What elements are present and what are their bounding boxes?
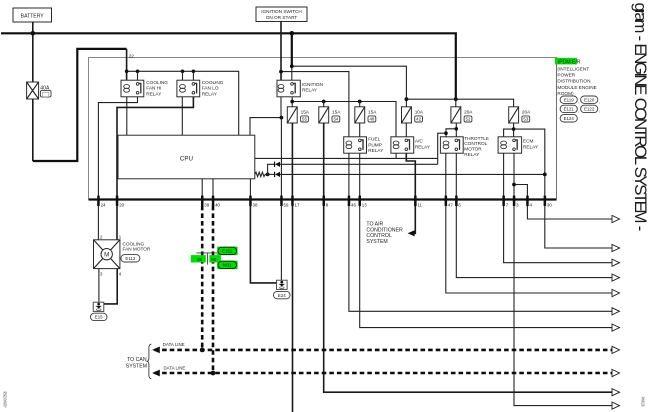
label drawing code right <box>641 397 646 407</box>
wire HI coil to CPU <box>126 97 128 135</box>
ground E24 <box>277 280 288 289</box>
wire diode branch riser <box>268 164 275 174</box>
label motor pin 3 <box>100 271 103 276</box>
arrow CAN L to can system <box>152 370 160 377</box>
pin stub 7 <box>502 196 505 206</box>
svg-text:47: 47 <box>448 202 453 207</box>
svg-text:E15: E15 <box>95 315 103 320</box>
pin stub 4 <box>526 196 529 206</box>
node pin30 diode junction <box>543 173 547 177</box>
wire pin 3 to arrow row 11 <box>514 206 612 406</box>
svg-text:FAN LO: FAN LO <box>202 86 219 91</box>
label data line lower <box>164 365 186 370</box>
wire HI contact top pin <box>137 71 139 80</box>
svg-text:,: , <box>578 99 579 104</box>
node fuse rail 54 <box>322 100 326 104</box>
relay A/C <box>391 137 414 153</box>
pin label 8 <box>326 202 329 207</box>
svg-text:22: 22 <box>129 53 135 58</box>
svg-text:CONTROL: CONTROL <box>464 141 487 146</box>
wire ground net to CPU <box>250 118 281 136</box>
label ignition relay <box>302 82 323 93</box>
svg-text:20: 20 <box>119 202 124 207</box>
svg-text:13: 13 <box>362 202 367 207</box>
wire cooling fan relay rail <box>127 71 239 135</box>
wire fuse 54 top pin <box>323 102 325 107</box>
wire fuse 48 top pin <box>359 102 361 107</box>
arrow next page row 10 <box>612 389 620 396</box>
cooling fan motor M1 <box>94 240 120 269</box>
svg-text:DATA LINE: DATA LINE <box>163 342 185 347</box>
connector label M31 <box>217 261 237 270</box>
wire pin 7 to arrow row 3 <box>504 206 612 263</box>
node battery fuse rail 52 <box>454 97 458 101</box>
svg-text:ROOM): ROOM) <box>557 91 574 96</box>
label cooling fan LO relay <box>202 80 224 96</box>
wire CPU pin 40 drop <box>212 179 214 200</box>
pin stub 38 <box>249 196 252 206</box>
pin stub 40 <box>212 196 215 206</box>
IPDM E/R enclosure box <box>89 58 557 200</box>
svg-text:E120: E120 <box>584 98 595 103</box>
wire pin 47 to arrow row 5 <box>446 206 612 293</box>
wire pin 20 to motor pin 1 <box>116 206 118 240</box>
wire ignition switched fuse rail <box>292 102 396 137</box>
svg-text:A/C: A/C <box>415 139 423 144</box>
svg-text:39: 39 <box>204 202 209 207</box>
wire ignition coil to ground net <box>280 97 282 118</box>
pin stub 59 <box>280 196 283 206</box>
svg-text:FAN HI: FAN HI <box>146 86 161 91</box>
arrow next page row 1 <box>612 215 620 222</box>
svg-text:PUMP: PUMP <box>368 142 382 147</box>
label motor pin 1 <box>119 235 122 240</box>
svg-text:COOLING: COOLING <box>202 80 224 85</box>
arrow next page CAN H <box>612 346 620 353</box>
label fuse 22 <box>129 53 135 58</box>
pin label 30 <box>547 202 552 207</box>
svg-text:46: 46 <box>351 202 356 207</box>
arrow next page CAN L <box>612 369 620 376</box>
wire AC contact to pin 11 <box>406 153 415 199</box>
wire pin 13 to arrow row 7 <box>360 206 612 328</box>
svg-text:RELAY: RELAY <box>146 91 162 96</box>
svg-text:E119: E119 <box>564 98 574 103</box>
wire fuse 53 to ECM relay <box>504 123 545 200</box>
ignition switch box <box>256 7 307 22</box>
svg-text:SYSTEM: SYSTEM <box>366 239 387 245</box>
label to CAN system <box>126 357 147 369</box>
connector label E121 <box>560 105 579 113</box>
arrow to air conditioner <box>408 230 415 236</box>
svg-text:M: M <box>104 251 109 258</box>
fuse 15A 48 <box>355 107 377 123</box>
svg-text:ECM: ECM <box>523 139 534 144</box>
relay throttle control motor <box>440 137 463 153</box>
svg-text:IGNITION SWITCH: IGNITION SWITCH <box>261 9 302 14</box>
svg-text:THROTTLE: THROTTLE <box>464 136 489 141</box>
label motor pin 4 <box>119 271 122 276</box>
wire CPU pin 38 drop <box>249 179 251 200</box>
wire pin 17 ignition power feed down <box>292 206 294 412</box>
wire CPU pin 39 drop <box>201 179 203 200</box>
wire motor pin 4 to ground <box>104 269 117 304</box>
node ignition coil ground tap <box>280 116 284 120</box>
node ECM contact branch <box>512 183 516 187</box>
label ECM relay <box>523 139 539 150</box>
wire battery drop to relay rail <box>291 33 293 80</box>
svg-text:SYSTEM: SYSTEM <box>126 363 147 369</box>
wire pin 4 to arrow row 1 <box>527 206 612 219</box>
svg-text:CPU: CPU <box>180 156 193 163</box>
label data line upper <box>163 342 185 347</box>
wire LO contact top pin <box>192 71 194 80</box>
connector label E122 <box>581 105 600 113</box>
pin label 46 <box>351 202 356 207</box>
connector E152/M31 pass-through <box>196 253 217 265</box>
wire fuse 55 to pin 17 <box>291 123 293 200</box>
connector label E24 <box>274 291 291 298</box>
pin stub 20 <box>116 196 119 206</box>
svg-text:24: 24 <box>101 202 106 207</box>
svg-text:E113: E113 <box>125 256 135 261</box>
wire diode D2 output to pin30 net <box>280 173 545 175</box>
svg-text:IGNITION: IGNITION <box>302 82 323 87</box>
wire pin 30 to arrow row 2 <box>545 206 612 248</box>
wire throttle contact to pin 6 <box>455 153 457 199</box>
wire HI contact to pin 24 <box>98 97 137 200</box>
label connector pin 66 <box>191 255 206 262</box>
svg-text:COOLING: COOLING <box>146 80 168 85</box>
label connector pin 90 <box>209 255 220 262</box>
pin stub 6 <box>455 196 458 206</box>
pin label 39 <box>204 202 209 207</box>
svg-text:55: 55 <box>302 117 307 122</box>
svg-text:TO CAN: TO CAN <box>127 357 147 363</box>
label to air conditioner control system <box>366 222 403 245</box>
svg-text:IPDM E/R: IPDM E/R <box>558 59 581 65</box>
fuse 20A 52 <box>451 107 473 123</box>
wire battery rail y66 <box>292 66 407 99</box>
pin label 24 <box>101 202 106 207</box>
svg-text:66: 66 <box>197 257 202 262</box>
wire pin 46 to arrow row 6 <box>349 206 612 311</box>
node battery tap <box>31 31 36 36</box>
svg-text:E124: E124 <box>564 116 575 121</box>
wire ignition rail to fuel pump coil <box>281 72 349 137</box>
pin label 17 <box>295 202 300 207</box>
diode D1 <box>275 162 280 167</box>
svg-text:20A: 20A <box>464 110 473 115</box>
pin stub 47 <box>445 196 448 206</box>
wire ECM coil to pin 7 <box>503 153 505 199</box>
wire fuse 42 top pin <box>405 99 407 107</box>
wire fusible link to IPDM fuse 22 riser <box>33 49 127 161</box>
label IPDM full name <box>557 67 596 96</box>
pin stub 39 <box>201 196 204 206</box>
node CAN L junction <box>211 371 216 376</box>
wire fuse 48 to fuel pump contact <box>359 123 361 137</box>
fusible link 40A <box>27 82 51 99</box>
pin label 40 <box>215 202 220 207</box>
pin stub 30 <box>544 196 547 206</box>
pin stub 11 <box>414 196 417 206</box>
node fuse 52 branch <box>455 127 459 131</box>
svg-text:42: 42 <box>416 117 421 122</box>
node fuse rail 48 <box>358 100 362 104</box>
pin label 7 <box>506 202 509 207</box>
node ignition rail tap <box>279 70 283 74</box>
node rail HI coil <box>125 70 129 74</box>
wire ignition contact to fuse rail <box>291 97 293 107</box>
arrow next page row 2 <box>612 244 620 251</box>
arrow next page row 6 <box>612 308 620 315</box>
arrow next page row 3 <box>612 259 620 266</box>
label fuel pump relay <box>368 137 384 153</box>
label page title vertical <box>631 3 650 231</box>
svg-text:10A: 10A <box>415 110 424 115</box>
svg-text:FUEL: FUEL <box>368 137 380 142</box>
label cooling fan HI relay <box>146 80 168 96</box>
svg-text:,: , <box>599 99 600 104</box>
svg-text:53: 53 <box>523 117 528 122</box>
wire AC coil ground to CPU net <box>395 153 397 158</box>
node throttle coil feed <box>444 131 448 135</box>
wire motor pin 3 to ground <box>98 269 100 303</box>
IPDM bottom pin row line <box>89 198 557 200</box>
pin stub 8 <box>323 196 326 206</box>
wire LO coil to CPU <box>181 97 183 135</box>
svg-text:E24: E24 <box>278 293 286 298</box>
svg-text:JPMIA0012GB: JPMIA0012GB <box>641 397 646 407</box>
wire LO contact to pin 20 <box>117 97 193 200</box>
relay ECM <box>498 137 521 153</box>
arrow next page row 11 <box>612 402 620 409</box>
wire fuse 52 top pin <box>455 99 457 107</box>
svg-text:30: 30 <box>547 202 552 207</box>
wire CAN pin 39 dashed <box>201 206 204 350</box>
label throttle control motor relay <box>464 136 489 157</box>
svg-text:RELAY: RELAY <box>202 91 218 96</box>
node battery fuse rail 42 <box>405 97 409 101</box>
svg-text:DISTRIBUTION: DISTRIBUTION <box>557 79 590 84</box>
label cooling fan motor <box>123 242 151 252</box>
svg-text:RELAY: RELAY <box>464 152 480 157</box>
relay cooling fan LO <box>177 80 200 97</box>
svg-text:11: 11 <box>417 202 422 207</box>
wire pin 8 to arrow row 10 <box>324 206 612 392</box>
diode D2 <box>268 172 280 177</box>
svg-text:,: , <box>599 108 600 113</box>
fuse 15A 55 <box>287 107 310 123</box>
pin stub 24 <box>97 196 100 206</box>
wire battery main feed <box>1 33 456 99</box>
svg-text:17: 17 <box>295 202 300 207</box>
connector E113 <box>121 255 140 262</box>
wire throttle coil to pin 47 <box>445 153 447 199</box>
svg-text:RELAY: RELAY <box>302 88 318 93</box>
node rail LO contact <box>192 70 196 74</box>
pin label 4 <box>530 202 533 207</box>
wire LO coil top pin <box>182 71 184 80</box>
pin stub 17 <box>291 196 294 206</box>
pin label 3 <box>516 202 519 207</box>
CPU box <box>118 135 255 179</box>
svg-text:90: 90 <box>211 257 216 262</box>
relay cooling fan HI <box>121 80 144 97</box>
wire ignition switch drop <box>280 22 282 81</box>
pin label 59 <box>284 202 289 207</box>
arrow next page row 4 <box>612 274 620 281</box>
pin label 6 <box>458 202 461 207</box>
node fuse rail start <box>290 100 294 104</box>
svg-text:RELAY: RELAY <box>368 148 384 153</box>
svg-text:MOTOR: MOTOR <box>464 147 482 152</box>
svg-text:ON OR START: ON OR START <box>266 15 298 20</box>
wire CAN H data line <box>155 349 613 352</box>
wire fuel pump contact to pin 13 <box>359 153 361 199</box>
node CAN H junction <box>200 348 205 353</box>
svg-text:54: 54 <box>333 117 338 122</box>
wire pin 24 to motor pin 2 <box>97 206 99 240</box>
arrow next page row 5 <box>612 289 620 296</box>
wire pin 38 to ground E24 <box>250 206 276 283</box>
svg-text:15A: 15A <box>368 110 377 115</box>
connector label E15 <box>90 313 107 320</box>
label IPDM highlighted <box>555 58 581 66</box>
pin label 11 <box>417 202 422 207</box>
node battery rail tap <box>290 64 294 68</box>
wire diode D1 output <box>280 163 438 165</box>
pin stub 46 <box>348 196 351 206</box>
fuse 15A 54 <box>319 107 341 123</box>
relay ignition <box>277 80 300 97</box>
wire CAN pin 40 dashed <box>212 206 215 373</box>
node ignition switch feed tap <box>290 31 295 36</box>
pin stub 13 <box>359 196 362 206</box>
wire fuse 22 drop into IPDM <box>126 49 128 81</box>
wire ECM contact output <box>514 153 527 199</box>
battery B1 <box>13 8 52 22</box>
pin label 13 <box>362 202 367 207</box>
wire pin 11 to air conditioner system <box>410 206 415 234</box>
svg-text:POWER: POWER <box>557 73 575 78</box>
wire pin 6 to arrow row 4 <box>456 206 612 278</box>
svg-text:E122: E122 <box>584 107 595 112</box>
svg-text:E121: E121 <box>564 107 575 112</box>
svg-text:MODULE ENGINE: MODULE ENGINE <box>557 85 596 90</box>
wire battery fuse rail y99 <box>406 99 513 107</box>
node resistor output <box>266 173 270 177</box>
pin label 20 <box>119 202 124 207</box>
pin stub 3 <box>513 196 516 206</box>
svg-text:20A: 20A <box>522 110 531 115</box>
node fuse 53 branch <box>512 127 516 131</box>
svg-text:M31: M31 <box>223 263 232 268</box>
svg-text:59: 59 <box>284 202 289 207</box>
svg-text:48: 48 <box>369 117 374 122</box>
connector label E124 <box>560 115 577 122</box>
brace to CAN system <box>147 344 151 379</box>
IPDM right edge <box>556 58 558 200</box>
connector label E152 <box>217 247 237 256</box>
svg-text:DATA LINE: DATA LINE <box>164 365 186 370</box>
connector label E120 <box>581 96 600 104</box>
svg-text:(INTELLIGENT: (INTELLIGENT <box>557 67 589 72</box>
svg-text:ALBWA0038GB: ALBWA0038GB <box>3 391 8 407</box>
pin label 47 <box>448 202 453 207</box>
svg-text:BATTERY: BATTERY <box>21 13 45 19</box>
fuse 20A 53 <box>509 107 531 123</box>
svg-text:FAN MOTOR: FAN MOTOR <box>123 247 151 252</box>
wire fuse 54 to pin 8 <box>323 123 325 200</box>
label drawing code left <box>3 391 8 407</box>
svg-text:52: 52 <box>466 117 471 122</box>
pin label 38 <box>253 202 258 207</box>
node rail LO coil <box>181 70 185 74</box>
arrow CAN H to can system <box>152 347 160 354</box>
wire fuse 42 to AC contact <box>405 123 407 137</box>
wire CAN L data line <box>155 372 613 375</box>
svg-text:,: , <box>578 108 579 113</box>
svg-text:E152: E152 <box>222 249 233 254</box>
wire pin 59 riser <box>280 118 282 281</box>
label motor pin 2 <box>100 235 103 240</box>
relay fuel pump <box>344 137 367 153</box>
svg-text:15A: 15A <box>332 110 341 115</box>
node rail HI contact <box>136 70 140 74</box>
arrow next page row 7 <box>612 324 620 331</box>
fuse 10A 42 <box>402 107 424 123</box>
wire fuse 52 to throttle relay <box>438 123 457 164</box>
resistor R1 <box>255 172 268 176</box>
ground E15 <box>93 302 104 311</box>
svg-text:RELAY: RELAY <box>523 144 539 149</box>
svg-text:RELAY: RELAY <box>415 144 431 149</box>
svg-text:gram - ENGINE CONTROL SYSTEM -: gram - ENGINE CONTROL SYSTEM - <box>631 3 650 231</box>
wire battery drop <box>32 22 34 161</box>
svg-text:38: 38 <box>253 202 258 207</box>
connector label E119 <box>560 96 579 104</box>
svg-text:40: 40 <box>215 202 220 207</box>
svg-text:15A: 15A <box>301 110 310 115</box>
wire fuel pump coil to pin 46 <box>348 153 350 199</box>
wire CPU right output to throttle node <box>255 157 438 159</box>
label A/C relay <box>415 139 431 150</box>
